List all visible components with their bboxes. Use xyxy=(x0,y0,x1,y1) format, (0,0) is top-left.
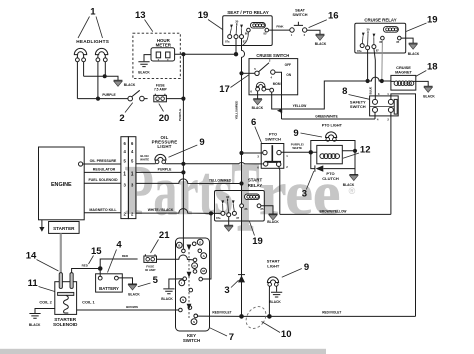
ground start light xyxy=(271,292,282,297)
green/white arrow tail xyxy=(281,95,283,119)
wire key switch M drop xyxy=(203,213,212,279)
svg-text:BLACK: BLACK xyxy=(252,106,264,110)
ground battery xyxy=(128,284,137,290)
svg-text:CRUISE RELAY: CRUISE RELAY xyxy=(364,18,396,23)
svg-text:CRUISE SWITCH: CRUISE SWITCH xyxy=(256,53,289,58)
svg-text:RED: RED xyxy=(82,263,89,267)
svg-text:PURPLE: PURPLE xyxy=(178,109,182,122)
junction center bus / pto pin 3 xyxy=(239,151,243,155)
callout 11 (starter solenoid) xyxy=(28,278,55,292)
svg-text:WHITE / BLACK: WHITE / BLACK xyxy=(148,208,174,212)
wire yellow (cruise switch mom to cruise net riser) xyxy=(272,81,366,109)
svg-text:1: 1 xyxy=(123,172,126,178)
svg-text:S: S xyxy=(193,320,195,324)
callout 3 (key diode) xyxy=(224,280,238,296)
svg-text:YELLOW/RED: YELLOW/RED xyxy=(209,178,232,182)
junction battery positive xyxy=(98,266,103,271)
cruise relay xyxy=(355,18,406,53)
callout 13 (hour meter) xyxy=(135,10,153,32)
svg-text:19: 19 xyxy=(427,15,438,26)
wire hour meter to ground xyxy=(144,55,151,62)
svg-text:BROWN/YELLOW: BROWN/YELLOW xyxy=(320,210,347,214)
wire fuse 30 to key switch B (hops purple bus) xyxy=(157,255,194,260)
svg-text:87a: 87a xyxy=(225,40,230,44)
start light label xyxy=(267,259,281,269)
svg-text:WHITE: WHITE xyxy=(140,157,149,161)
svg-text:I: I xyxy=(181,281,182,285)
wire brown (solenoid to key switch) xyxy=(77,309,179,311)
svg-text:8: 8 xyxy=(342,86,347,97)
wire cruise switch ground drop xyxy=(257,91,259,99)
svg-text:30: 30 xyxy=(235,20,239,24)
svg-text:BLACK: BLACK xyxy=(124,83,136,87)
callout 12 (pto clutch coil) xyxy=(343,145,370,159)
ground engine (arrow) xyxy=(39,220,44,232)
watermark xyxy=(125,141,356,252)
oil pressure light label xyxy=(152,135,178,149)
wire blue/white (connector to oil lamp) xyxy=(136,163,156,165)
engine oil pressure terminal xyxy=(79,162,83,166)
svg-text:GREEN/WHITE: GREEN/WHITE xyxy=(315,114,338,118)
ground hour meter xyxy=(138,62,149,67)
callout 9 (pto light) xyxy=(293,128,322,139)
callout 7 (key switch) xyxy=(210,328,234,343)
svg-text:16: 16 xyxy=(328,11,339,22)
svg-text:PINK: PINK xyxy=(276,25,284,29)
pto clutch coil (item 12) xyxy=(311,145,355,163)
headlight lamp left xyxy=(74,48,86,61)
connector loop (item 10, dashed) xyxy=(242,303,270,332)
svg-text:COIL 2: COIL 2 xyxy=(39,299,52,304)
svg-text:COIL 1: COIL 1 xyxy=(82,299,95,304)
wire cruise magnet to ground xyxy=(416,81,428,86)
callout 19 (start relay) xyxy=(250,222,263,248)
wire cruise relay 87 drop to safety switch pin 3 xyxy=(374,49,375,100)
callout 3 (pto diode) xyxy=(302,171,314,199)
svg-text:87a: 87a xyxy=(216,216,221,220)
svg-text:9: 9 xyxy=(199,137,204,148)
key switch (item 7) xyxy=(176,238,210,331)
wire start relay 85 to ground xyxy=(261,206,273,214)
key switch ground wire xyxy=(169,279,183,289)
hour meter dashed enclosure xyxy=(133,33,180,78)
callout 9 (oil pressure light) xyxy=(169,137,205,157)
callout 19 (seat/pto relay) xyxy=(198,10,223,30)
wire green/white (to safety switch pin 4) xyxy=(282,118,376,120)
svg-text:HEADLIGHTS: HEADLIGHTS xyxy=(76,39,109,44)
svg-text:ON: ON xyxy=(286,73,291,77)
junction purple bus / hour meter xyxy=(181,52,185,56)
svg-text:LIGHT: LIGHT xyxy=(267,263,280,268)
callout 21 (fuse 30) xyxy=(151,230,171,253)
wire yellow/red (connector pin 3 to start relay coil) xyxy=(136,179,240,184)
junction white/black / key switch drop xyxy=(209,211,213,215)
wire safety pin 4 stub xyxy=(374,112,376,119)
wire seat switch to ground xyxy=(307,30,320,34)
starter xyxy=(49,222,80,234)
wire oil pressure (engine to connector pin 5) xyxy=(83,163,121,165)
svg-text:15: 15 xyxy=(91,246,102,257)
svg-text:14: 14 xyxy=(26,251,37,262)
seat / pto relay xyxy=(223,10,273,46)
svg-text:SEAT / PTO RELAY: SEAT / PTO RELAY xyxy=(227,10,269,15)
svg-text:2: 2 xyxy=(119,113,124,124)
callout 5 (battery ground) xyxy=(138,275,159,287)
svg-text:PTO LIGHT: PTO LIGHT xyxy=(322,123,343,127)
svg-text:YELLOW/RED: YELLOW/RED xyxy=(235,101,239,120)
ground cruise switch xyxy=(253,99,262,105)
wire red (solenoid to battery junction) xyxy=(72,269,98,273)
svg-text:5: 5 xyxy=(153,275,159,286)
ground seat switch xyxy=(316,34,325,40)
junction cruise net / relay 86 xyxy=(380,79,384,83)
wire start light left drop xyxy=(268,286,270,316)
wire cruise relay contact drop to cruise net xyxy=(367,50,369,81)
pto clutch label xyxy=(322,171,339,181)
cruise switch xyxy=(249,53,298,95)
wire fuse to purple bus xyxy=(166,98,183,100)
svg-text:4: 4 xyxy=(116,240,122,251)
diode key circuit (item 3) xyxy=(238,275,245,283)
svg-text:PURPLE: PURPLE xyxy=(102,93,116,97)
svg-text:®: ® xyxy=(349,186,356,196)
wire cruise switch pin 5 feed xyxy=(242,72,255,74)
svg-text:OFF: OFF xyxy=(285,63,291,67)
start light xyxy=(267,277,278,286)
wire start relay 30 contact ground drop xyxy=(228,217,230,226)
svg-text:MAGNET: MAGNET xyxy=(395,69,412,74)
svg-text:SWITCH: SWITCH xyxy=(293,13,308,17)
junction pto clutch node xyxy=(309,150,313,154)
svg-text:FUEL SOLENOID: FUEL SOLENOID xyxy=(88,178,117,182)
callout 9 (start light) xyxy=(282,262,309,278)
svg-text:RED: RED xyxy=(122,254,129,258)
wire center bus to pto switch pin 3 xyxy=(242,152,263,154)
svg-text:BATTERY: BATTERY xyxy=(99,286,119,291)
ground start relay contact xyxy=(224,225,233,231)
ground start relay coil xyxy=(269,214,278,220)
svg-text:BLACK: BLACK xyxy=(408,52,420,56)
svg-text:STARTER: STARTER xyxy=(54,317,76,322)
starter solenoid xyxy=(55,273,77,315)
svg-text:19: 19 xyxy=(252,236,263,247)
svg-text:3: 3 xyxy=(224,285,229,296)
junction hour meter node / relay xyxy=(234,52,238,56)
wire solenoid ground xyxy=(35,309,55,314)
svg-text:BLACK: BLACK xyxy=(29,323,41,327)
cruise magnet xyxy=(391,65,416,90)
junction headlight ground xyxy=(103,74,107,78)
start relay xyxy=(215,191,265,222)
seat switch (item 16) xyxy=(290,9,308,37)
callout 1 (headlights) xyxy=(78,7,103,39)
diode pto clutch (item 3) xyxy=(315,165,323,171)
svg-text:BLACK: BLACK xyxy=(315,42,327,46)
svg-text:BLACK: BLACK xyxy=(269,300,281,304)
svg-text:BLACK: BLACK xyxy=(161,297,173,301)
wire purple/white (pto pin 1 to clutch) xyxy=(281,151,311,153)
svg-text:30: 30 xyxy=(366,28,370,32)
light switch (item 2) xyxy=(128,90,144,101)
safety switch xyxy=(350,92,398,122)
svg-text:REGULATOR: REGULATOR xyxy=(93,168,116,172)
wire fuel solenoid (engine to connector pin 3) xyxy=(84,182,121,184)
svg-text:13: 13 xyxy=(135,10,146,21)
watermark row 2 (cut off at bottom edge) xyxy=(0,349,326,354)
junction purple headlights xyxy=(96,97,100,101)
svg-text:RELAY: RELAY xyxy=(248,183,263,188)
headlight lamp right xyxy=(95,48,107,61)
callout 19 (cruise relay) xyxy=(406,15,438,32)
svg-text:STARTER: STARTER xyxy=(53,226,75,231)
connector block (item 10 family) xyxy=(121,137,136,219)
svg-text:30 AMP: 30 AMP xyxy=(145,268,156,272)
svg-text:SEAT: SEAT xyxy=(295,9,306,13)
svg-text:PURPLE: PURPLE xyxy=(158,168,172,172)
svg-text:20: 20 xyxy=(159,113,170,124)
ground key switch xyxy=(163,289,174,294)
svg-text:3: 3 xyxy=(302,189,307,200)
key switch red/violet pin xyxy=(194,314,198,318)
fuse 7.5 amp (item 20) xyxy=(154,84,168,102)
wire cruise relay 86 drop (gray) xyxy=(381,40,384,81)
svg-text:RED/VIOLET: RED/VIOLET xyxy=(212,310,231,314)
svg-text:YELLOW: YELLOW xyxy=(293,104,307,108)
pto switch xyxy=(257,132,288,170)
callout 6 (pto switch) xyxy=(251,117,262,143)
svg-text:WHITE: WHITE xyxy=(292,146,302,150)
junction purple bus / pin 1 xyxy=(181,170,185,174)
svg-text:BLACK: BLACK xyxy=(138,71,150,75)
wire brown/yellow xyxy=(280,213,391,215)
svg-text:1: 1 xyxy=(131,172,134,178)
wire battery negative to ground xyxy=(118,278,132,284)
ground cruise relay xyxy=(409,43,418,49)
svg-text:12: 12 xyxy=(360,145,371,156)
svg-text:19: 19 xyxy=(198,10,209,21)
callout 17 (cruise switch) xyxy=(219,75,249,95)
callout 8 (safety switch) xyxy=(342,86,369,100)
svg-text:SOLENOID: SOLENOID xyxy=(53,322,78,327)
svg-text:MAGNETO KILL: MAGNETO KILL xyxy=(89,208,117,212)
wire purple headlight feed xyxy=(77,98,147,100)
wire safety pin 2 drop to brown/yellow xyxy=(390,112,392,214)
wire red/violet (key switch to right bus) xyxy=(198,315,416,317)
svg-text:BLUE: BLUE xyxy=(369,87,373,95)
svg-text:30: 30 xyxy=(226,195,230,199)
oil pressure light (item 9) xyxy=(155,154,166,163)
junction purple bus / fuse xyxy=(181,97,185,101)
wire cruise relay 85 to ground xyxy=(401,38,413,43)
svg-text:BLACK: BLACK xyxy=(128,292,140,296)
svg-text:BLACK: BLACK xyxy=(423,95,435,99)
ground starter solenoid xyxy=(29,314,40,319)
svg-text:RED/VIOLET: RED/VIOLET xyxy=(322,311,341,315)
callout 10 (connector loop) xyxy=(262,322,292,341)
svg-text:SWITCH: SWITCH xyxy=(265,136,281,141)
junction purple bus / oil lamp xyxy=(181,162,185,166)
wire headlight ground run xyxy=(84,76,118,80)
svg-text:9: 9 xyxy=(293,128,298,139)
wire red riser to fuse 30 xyxy=(100,259,137,269)
svg-text:LIGHT: LIGHT xyxy=(157,144,171,149)
callout 4 (battery) xyxy=(108,240,123,273)
callout 16 (seat switch) xyxy=(309,11,339,28)
junction red/violet / center bus xyxy=(239,314,244,319)
wire oil lamp to pto switch pin 6 xyxy=(165,163,263,164)
callout 2 (light switch) xyxy=(119,103,132,124)
wire hour meter output (node to seat/pto relay) xyxy=(175,53,236,55)
key switch label xyxy=(183,333,200,343)
wire relay middle contact drop xyxy=(235,39,237,55)
pto clutch wire loop xyxy=(311,141,355,175)
svg-text:BLACK: BLACK xyxy=(343,183,355,187)
svg-text:17: 17 xyxy=(219,84,230,95)
starter cable (item 14) xyxy=(60,233,62,274)
svg-text:7.5 AMP: 7.5 AMP xyxy=(154,88,168,92)
svg-text:METER: METER xyxy=(156,43,172,48)
svg-text:10: 10 xyxy=(281,329,292,340)
callout 14 (starter cable) xyxy=(26,251,59,271)
junction red/violet / start light xyxy=(267,314,272,319)
ground cruise magnet xyxy=(424,86,433,92)
wire relay 87 drop (hops over node) then center bus xyxy=(242,39,245,317)
wire safety pin 1 to right bus xyxy=(391,94,416,317)
callout 15 (red wire) xyxy=(89,246,103,264)
junction cruise net / relay contact xyxy=(366,79,370,83)
battery xyxy=(96,269,123,293)
wire start light right stub to ground xyxy=(276,286,278,292)
wire white/black (connector pin 2 to start relay 87a) xyxy=(136,209,221,214)
ground headlights xyxy=(114,80,123,86)
fuse 30 amp (item 21) xyxy=(144,254,157,272)
junction pto clutch right xyxy=(353,149,357,153)
key switch brown pin xyxy=(179,308,183,312)
svg-text:BLACK: BLACK xyxy=(267,220,279,224)
svg-text:18: 18 xyxy=(427,62,438,73)
wire headlight drops xyxy=(77,62,105,99)
svg-text:SWITCH: SWITCH xyxy=(183,338,200,343)
junction center bus / cruise switch xyxy=(239,71,243,75)
wire purple (connector pin 1 to purple bus) xyxy=(136,171,184,173)
svg-text:SWITCH: SWITCH xyxy=(350,104,366,109)
svg-text:87a: 87a xyxy=(357,49,362,53)
svg-text:9: 9 xyxy=(304,262,309,273)
svg-text:1: 1 xyxy=(90,7,96,18)
wire relay 85 to seat switch (pink) xyxy=(269,29,290,31)
svg-text:OIL PRESSURE: OIL PRESSURE xyxy=(90,159,117,163)
hour meter xyxy=(151,38,175,61)
svg-text:BROWN: BROWN xyxy=(126,305,138,309)
svg-text:CLUTCH: CLUTCH xyxy=(322,176,339,181)
svg-text:MOM: MOM xyxy=(273,82,281,86)
ground pto clutch xyxy=(349,175,358,181)
start relay title xyxy=(248,178,263,188)
svg-text:11: 11 xyxy=(28,278,39,289)
svg-text:S: S xyxy=(182,298,184,302)
wire cruise net hop over blue xyxy=(368,77,391,81)
wire magneto kill (engine to connector pin 2) xyxy=(84,212,121,214)
svg-text:7: 7 xyxy=(229,332,234,343)
engine xyxy=(39,147,85,220)
wire purple bus vertical xyxy=(182,54,184,249)
callout 20 (fuse 7.5) xyxy=(159,104,170,124)
wire pto pin 2 drop to brown/yellow xyxy=(279,166,280,214)
svg-text:21: 21 xyxy=(159,230,170,241)
wire regulator (engine to connector pin 1) xyxy=(84,171,121,173)
svg-text:ENGINE: ENGINE xyxy=(51,182,72,188)
starter solenoid label xyxy=(53,317,78,327)
pto light xyxy=(326,132,337,141)
junction center bus / yellow-red xyxy=(239,181,243,185)
svg-text:6: 6 xyxy=(251,117,256,128)
callout 18 (cruise magnet) xyxy=(416,62,438,77)
